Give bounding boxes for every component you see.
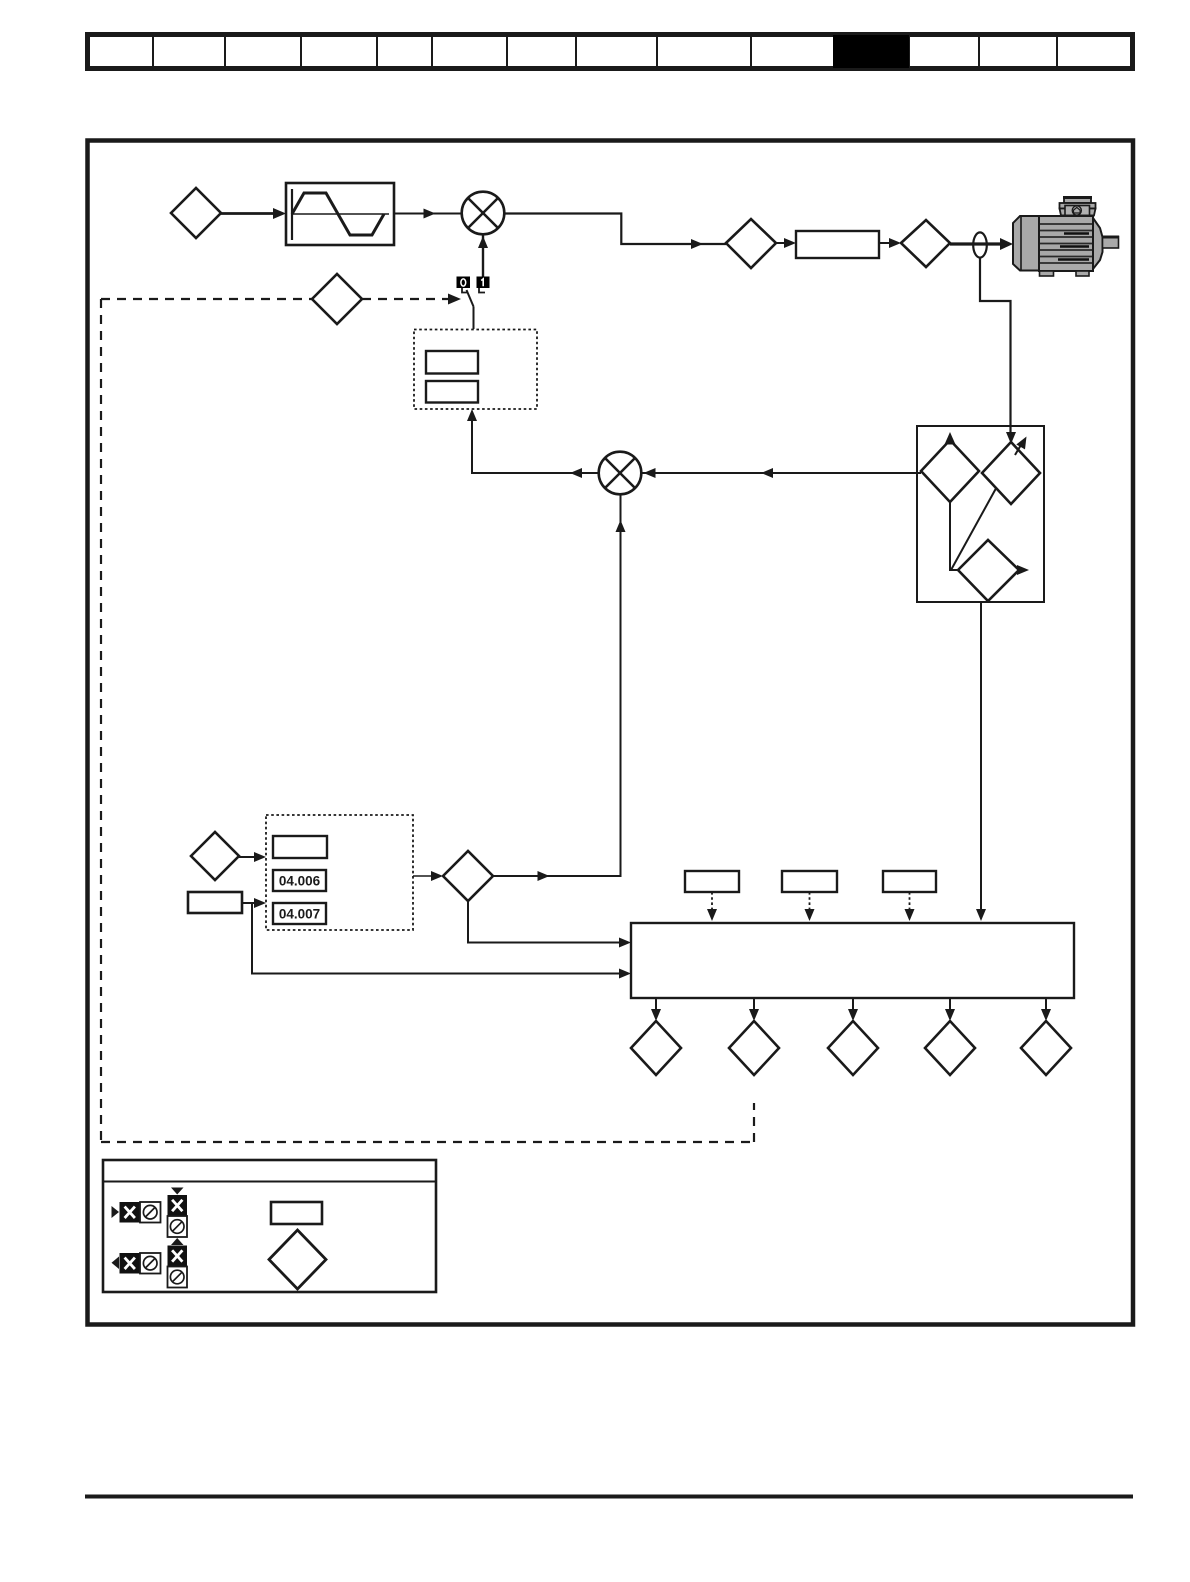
multiplier M2 xyxy=(599,452,642,495)
legend row1 X cell xyxy=(120,1202,141,1223)
torque diamond xyxy=(726,219,776,268)
output wire 2 xyxy=(753,998,755,1012)
legend row2 up triangle xyxy=(171,1238,184,1245)
legend row2 no-entry cell xyxy=(140,1253,161,1274)
output wire 5 xyxy=(1045,998,1047,1012)
wire offset block to dotted box xyxy=(242,902,258,904)
wire offset block branch to motor control box xyxy=(252,903,626,974)
motor terminal box gland circle xyxy=(1072,206,1081,215)
wire demand diamond to motor control box xyxy=(468,901,626,943)
output diamond 2 xyxy=(729,1021,779,1075)
junction wire from frequency diamond xyxy=(950,502,958,570)
wire M2 to torque reference box xyxy=(472,414,599,473)
motor fin shadows xyxy=(1058,234,1089,260)
speed reference diamond xyxy=(171,188,221,238)
dashed control wire to switch xyxy=(362,298,450,300)
current limit block xyxy=(796,231,879,258)
adjustment diagonal wire xyxy=(951,472,1005,570)
dashed wire mode diamond left xyxy=(101,298,312,300)
wire demand diamond to M2 xyxy=(493,494,621,876)
motor right bell housing xyxy=(1093,218,1103,269)
motor xyxy=(1013,198,1119,277)
mode select dashed diamond xyxy=(312,274,362,324)
wire diamond to motor through current transducer xyxy=(950,242,1002,245)
output wire 1 xyxy=(655,998,657,1012)
parameter box 04.007 xyxy=(273,903,326,924)
ramp profile curve xyxy=(292,193,384,235)
legend parameter rectangle xyxy=(271,1202,322,1224)
wire motor feedback down xyxy=(980,258,1011,437)
legend row1 down triangle xyxy=(171,1188,184,1195)
motor shaft xyxy=(1103,237,1119,249)
legend row2 X cell xyxy=(120,1253,141,1274)
torque reference parameter box xyxy=(426,351,478,374)
motor cooling fins xyxy=(1040,224,1092,263)
wire reference to ramp xyxy=(221,212,277,215)
ramp vertical axis xyxy=(291,189,293,240)
wire block to diamond xyxy=(879,242,897,244)
switch terminal 1 label xyxy=(477,277,490,289)
header tab bar outer frame xyxy=(88,35,1133,69)
magnetising diamond xyxy=(958,540,1019,601)
ramp zero line xyxy=(292,213,389,215)
legend row1 read marker triangle xyxy=(112,1206,120,1218)
wire dotted box to demand diamond xyxy=(413,875,437,877)
torque mode diamond xyxy=(191,832,239,880)
svg-text:04.006: 04.006 xyxy=(279,874,321,889)
torque reference dotted box xyxy=(414,330,537,410)
frequency diamond up arrow xyxy=(945,432,956,445)
header tab dividers xyxy=(153,37,1057,69)
motor terminal box inner panel xyxy=(1065,206,1090,216)
torque offset block xyxy=(188,892,242,913)
wire ramp to multiplier xyxy=(394,213,462,215)
dashed wire left vertical xyxy=(100,299,102,1142)
wire switch terminal 1 to M1 xyxy=(482,235,484,277)
torque demand diamond xyxy=(443,851,493,901)
output diamond 1 xyxy=(631,1021,681,1075)
parameter box 04.006 xyxy=(273,870,326,891)
dotted wire block C to wide box xyxy=(909,892,911,914)
vector control box xyxy=(917,426,1044,602)
parameter block A xyxy=(685,871,739,892)
current transducer ellipse xyxy=(973,232,987,257)
terminal 0 contact xyxy=(462,288,468,293)
wire M1 to torque diamond xyxy=(504,214,726,245)
motor terminal box base flange xyxy=(1062,216,1092,224)
motor left end cap xyxy=(1013,216,1039,271)
selected header tab (black cell) xyxy=(833,35,909,68)
output wire 4 xyxy=(949,998,951,1012)
current demand diamond xyxy=(901,220,950,267)
legend row2 stacked no-entry cell xyxy=(168,1267,188,1288)
parameter dotted box xyxy=(266,815,413,930)
torque offset parameter box xyxy=(426,381,478,403)
dashed wire bottom horizontal xyxy=(101,1141,754,1143)
legend row1 stacked no-entry cell xyxy=(168,1216,188,1237)
magnetising diamond right arrow xyxy=(1019,569,1022,571)
multiplier M1 xyxy=(462,192,505,235)
switch terminal 0 label xyxy=(457,277,471,289)
dashed wire right vertical to output diamond 2 xyxy=(753,1103,755,1142)
voltage diamond xyxy=(982,442,1040,504)
legend box xyxy=(103,1160,436,1292)
legend row1 stacked X cell xyxy=(168,1195,188,1216)
motor control wide box xyxy=(631,923,1074,998)
wire control box to motor control box xyxy=(980,602,982,913)
wire diamond to block xyxy=(776,242,792,244)
legend row2 write marker triangle xyxy=(112,1257,120,1270)
parameter block B xyxy=(782,871,837,892)
motor terminal box top plate xyxy=(1064,198,1091,204)
terminal 1 contact xyxy=(479,288,485,293)
legend row2 stacked X cell xyxy=(168,1246,188,1267)
legend header line xyxy=(103,1181,436,1183)
output diamond 3 xyxy=(828,1021,878,1075)
dotted wire block A to wide box xyxy=(711,892,713,914)
legend diamond xyxy=(269,1230,326,1289)
parameter block C xyxy=(883,871,936,892)
main diagram frame xyxy=(88,141,1134,1325)
motor body fins section xyxy=(1039,216,1093,271)
output wire 3 xyxy=(852,998,854,1012)
ramp block xyxy=(286,183,394,245)
parameter box blank xyxy=(273,836,327,858)
switch lever xyxy=(467,290,474,307)
switch common wire xyxy=(473,307,475,330)
motor terminal box lower tier xyxy=(1060,209,1096,216)
footer rule xyxy=(85,1495,1133,1499)
output diamond 4 xyxy=(925,1021,975,1075)
dotted wire block B to wide box xyxy=(809,892,811,914)
motor base and feet xyxy=(1041,270,1091,272)
wire control box to multiplier M2 xyxy=(641,472,921,474)
frequency diamond xyxy=(921,440,979,502)
wire diamond to parameter dotted box xyxy=(239,856,258,858)
voltage diamond exit arrow xyxy=(1015,442,1023,456)
motor terminal box second plate xyxy=(1060,203,1096,209)
legend row1 no-entry cell xyxy=(140,1202,161,1223)
svg-text:04.007: 04.007 xyxy=(279,907,320,922)
output diamond 5 xyxy=(1021,1021,1071,1075)
